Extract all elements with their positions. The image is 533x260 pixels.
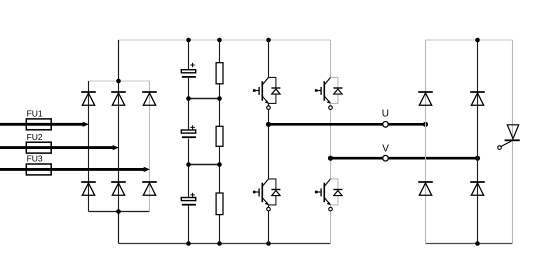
junction: res rail at DC+ xyxy=(217,38,222,43)
svg-text:V: V xyxy=(382,143,389,154)
junction: cap rail at DC- xyxy=(186,241,191,246)
wire: left leg upper xyxy=(268,40,270,77)
junction: left inverter leg at DC- xyxy=(266,241,271,246)
IGBT Q1 with antiparallel diode (top left) xyxy=(253,77,281,109)
wire: resistor rail xyxy=(219,40,221,244)
wire: right leg V to lower IGBT xyxy=(330,158,332,179)
wire: balancing link upper xyxy=(189,98,220,100)
junction: link1 right xyxy=(217,96,222,101)
junction: rectifier bottom bus / DC- xyxy=(116,209,121,214)
junction: middle leg at top bus xyxy=(475,38,480,43)
wire: capacitor rail xyxy=(188,40,190,244)
junction: cap rail at DC+ xyxy=(186,38,191,43)
junction: middle leg at bottom bus xyxy=(475,241,480,246)
wire: rectifier top bus xyxy=(89,80,150,82)
junction: U at left leg xyxy=(266,122,271,127)
wire: right leg emitter to V xyxy=(330,109,332,158)
IGBT Q2 with antiparallel diode (top right) xyxy=(315,77,343,109)
wire: U output line (thick) xyxy=(269,123,426,126)
IGBT Q3 with antiparallel diode (bottom left) xyxy=(253,179,281,211)
diode D2 (rectifier top leg 2) xyxy=(111,92,126,105)
resistor R1 xyxy=(216,63,223,84)
junction: link2 right xyxy=(217,162,222,167)
diode D9 (output bridge bottom left) xyxy=(418,182,433,195)
diode D5 (rectifier bottom leg 2) xyxy=(111,182,126,195)
junction: V at output bridge xyxy=(475,156,480,161)
terminal V xyxy=(383,155,389,161)
junction: res rail at DC- xyxy=(217,241,222,246)
wire: bottom DC- rail xyxy=(119,243,331,245)
junction: rectifier top bus / DC+ xyxy=(116,79,121,84)
fuse FU3 xyxy=(26,164,51,175)
fuse FU1 xyxy=(26,119,51,130)
capacitor C3 (electrolytic, + top) xyxy=(181,193,196,205)
wire: left leg emitter to U xyxy=(268,109,270,124)
svg-text:FU2: FU2 xyxy=(27,132,43,142)
wire: phase line L3 (thick) xyxy=(0,168,145,171)
diode D8 (output bridge top middle) xyxy=(470,92,485,105)
junction: link1 left xyxy=(186,96,191,101)
wire: output bridge top bus xyxy=(426,39,513,41)
wire: left leg U to lower IGBT xyxy=(268,124,270,179)
wire: right leg lower emitter to DC- xyxy=(330,211,332,244)
junction: V at right leg xyxy=(328,156,333,161)
resistor R3 xyxy=(216,193,223,215)
junction: link2 left xyxy=(186,162,191,167)
wire: rectifier phase leg 3 xyxy=(149,81,151,212)
fuse FU2 xyxy=(26,142,51,153)
diode D4 (rectifier bottom leg 1) xyxy=(81,182,96,195)
wire: phase line L1 (thick) xyxy=(0,123,84,126)
wire: V output line (thick) xyxy=(331,157,478,160)
wire: top DC+ rail xyxy=(119,39,331,41)
wire: rectifier phase leg 1 xyxy=(88,81,90,212)
arrow: L2 junction at leg 2 xyxy=(113,145,119,150)
junction: U at output bridge xyxy=(423,122,428,127)
wire: riser rectifier bus to bottom rail xyxy=(118,212,120,244)
wire: output bridge left leg xyxy=(425,40,427,244)
svg-text:FU3: FU3 xyxy=(27,154,43,164)
svg-text:U: U xyxy=(382,108,389,119)
IGBT Q4 with antiparallel diode (bottom right) xyxy=(315,179,343,211)
svg-text:FU1: FU1 xyxy=(27,109,43,119)
diode D1 (rectifier top leg 1) xyxy=(81,92,96,105)
capacitor C1 (electrolytic, + top) xyxy=(181,63,196,77)
wire: rectifier phase leg 2 xyxy=(118,81,120,212)
wire: right leg upper xyxy=(330,40,332,77)
arrow: L1 junction at leg 1 xyxy=(83,122,89,127)
wire: left leg lower emitter to DC- xyxy=(268,211,270,244)
wire: balancing link lower xyxy=(189,164,220,166)
wire: riser top rail to rectifier bus xyxy=(118,40,120,81)
diode D3 (rectifier top leg 3) xyxy=(142,92,157,105)
wire: output bridge bottom bus xyxy=(426,243,513,245)
wire: output bridge middle leg xyxy=(477,40,479,244)
arrow: L3 junction at leg 3 xyxy=(144,167,150,172)
wire: phase line L2 (thick) xyxy=(0,146,114,149)
thyristor VS1 (gate lower left) xyxy=(498,125,520,150)
diode D10 (output bridge bottom middle) xyxy=(470,182,485,195)
wire: output bridge right leg (thyristor branch) xyxy=(512,40,514,244)
junction: left inverter leg at DC+ xyxy=(266,38,271,43)
diode D7 (output bridge top left) xyxy=(418,92,433,105)
diode D6 (rectifier bottom leg 3) xyxy=(142,182,157,195)
capacitor C2 (electrolytic, + top) xyxy=(181,125,196,137)
wire: rectifier bottom bus xyxy=(89,211,150,213)
terminal U xyxy=(383,122,389,128)
resistor R2 xyxy=(216,126,223,146)
